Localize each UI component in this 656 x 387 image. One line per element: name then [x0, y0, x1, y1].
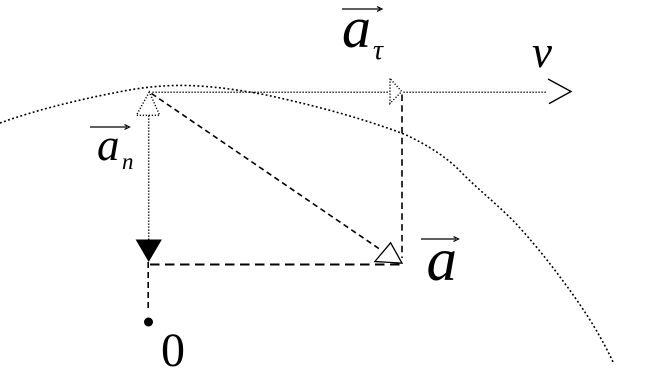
svg-text:v: v: [532, 27, 552, 77]
svg-text:n: n: [122, 149, 134, 174]
svg-text:a: a: [427, 227, 458, 294]
svg-text:a: a: [97, 120, 120, 170]
svg-text:τ: τ: [373, 35, 384, 66]
svg-text:a: a: [342, 0, 371, 60]
svg-text:0: 0: [161, 324, 185, 377]
